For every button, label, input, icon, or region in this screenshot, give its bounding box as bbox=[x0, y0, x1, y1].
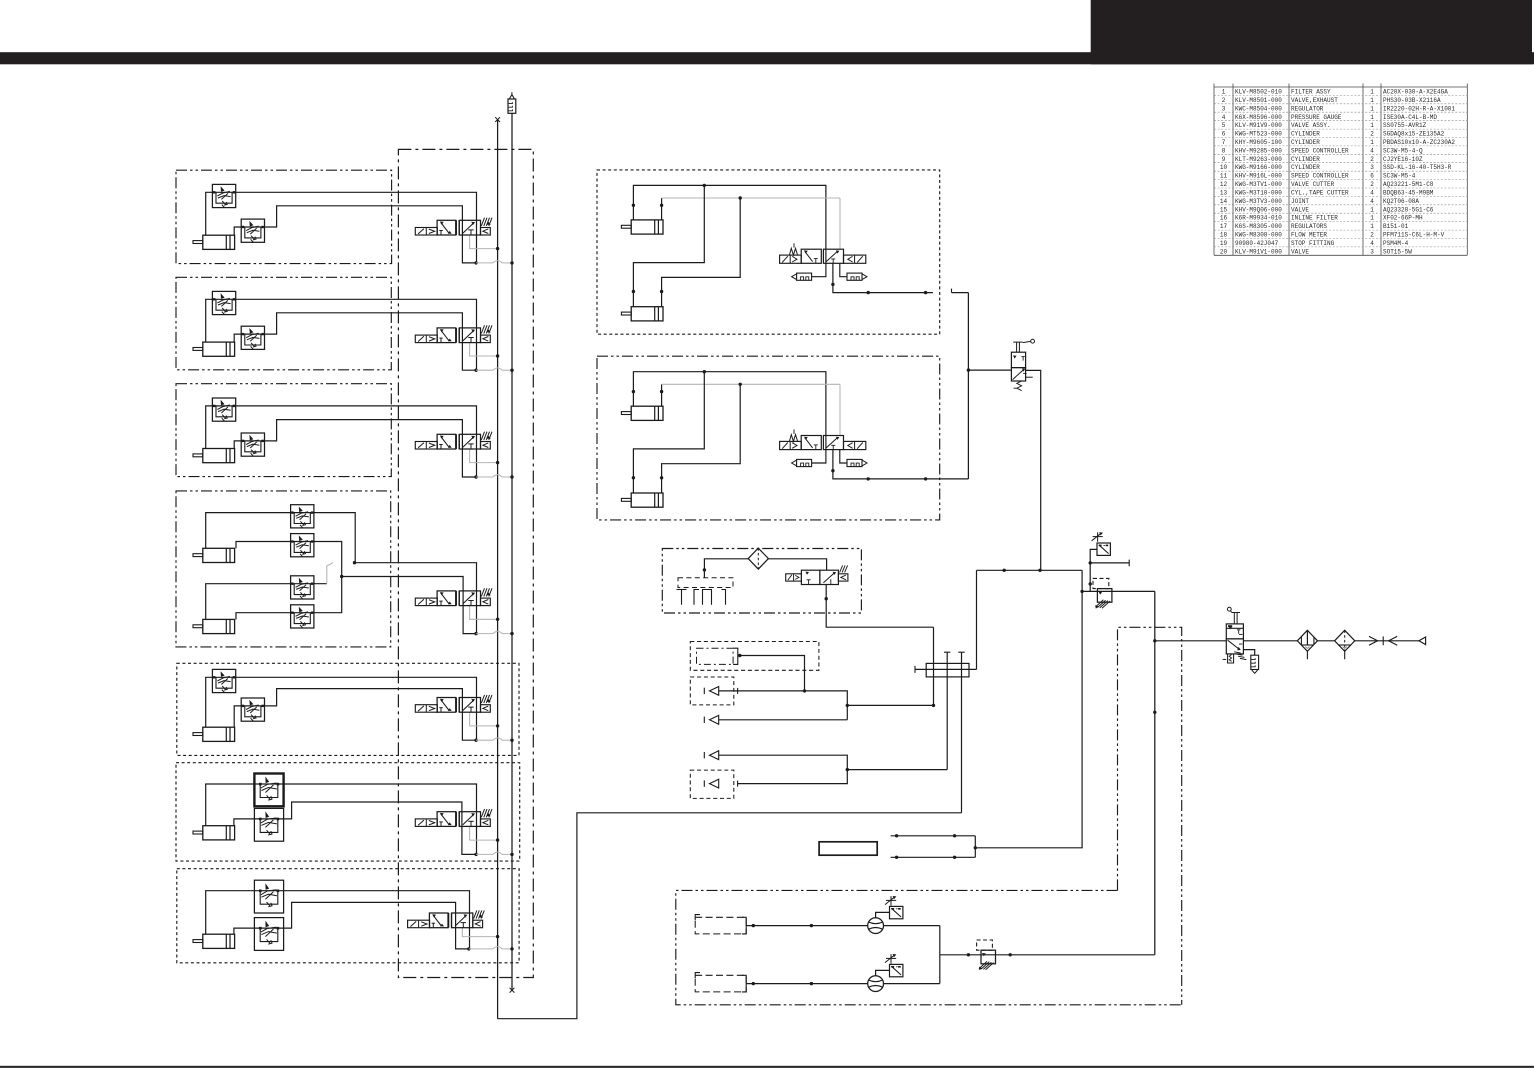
svg-text:BDQB63-45-M9BM: BDQB63-45-M9BM bbox=[1383, 190, 1434, 197]
solenoid valve B1 (5/2) bbox=[415, 228, 437, 236]
wire B6 supply stub (gray) bbox=[470, 826, 498, 840]
wire B4 valve line A bbox=[355, 563, 477, 634]
cylinder B7 bbox=[203, 934, 235, 948]
exhaust bus line R bbox=[511, 113, 513, 990]
block B7 enclosure bbox=[177, 869, 519, 963]
svg-text:KWG-M3TV1-000: KWG-M3TV1-000 bbox=[1235, 181, 1282, 188]
svg-text:13: 13 bbox=[1220, 190, 1228, 197]
wire blow4 to manifold bbox=[847, 769, 947, 771]
svg-text:VALVE ASSY.: VALVE ASSY. bbox=[1291, 122, 1331, 129]
svg-text:6: 6 bbox=[1370, 173, 1374, 180]
flow meter TC1 bbox=[868, 918, 884, 934]
wire V20 output bbox=[826, 585, 933, 628]
svg-text:VALVE: VALVE bbox=[1291, 248, 1309, 255]
junction B5 exhaust bbox=[510, 739, 513, 742]
svg-text:12: 12 bbox=[1220, 181, 1228, 188]
joint manifold block bbox=[926, 663, 969, 677]
svg-text:KHY-M9605-100: KHY-M9605-100 bbox=[1235, 139, 1282, 146]
speed controller B2b bbox=[241, 326, 264, 349]
svg-text:IR2220-02H-R-A-X1001: IR2220-02H-R-A-X1001 bbox=[1383, 105, 1455, 112]
speed controller B5a bbox=[212, 669, 235, 692]
svg-text:KLV-M8501-000: KLV-M8501-000 bbox=[1235, 97, 1282, 104]
wire B2 head-side line bbox=[234, 313, 476, 370]
wire TC1 bbox=[746, 925, 868, 927]
cylinder B5 bbox=[203, 727, 235, 741]
flow meter electric lead TC2 bbox=[890, 954, 892, 964]
svg-text:3: 3 bbox=[1370, 248, 1374, 255]
svg-text:VALVE CUTTER: VALVE CUTTER bbox=[1291, 181, 1335, 188]
flow meter gauge TC2 bbox=[876, 970, 890, 975]
svg-text:FILTER ASSY: FILTER ASSY bbox=[1291, 89, 1331, 96]
cylinder R1B bbox=[631, 307, 663, 321]
junction B2 A bbox=[474, 369, 477, 372]
speed controller B6b bbox=[254, 808, 283, 841]
svg-text:INLINE FILTER: INLINE FILTER bbox=[1291, 215, 1338, 222]
junction B7 supply bbox=[496, 935, 499, 938]
sheet bottom border bbox=[0, 1066, 1534, 1068]
wire blow2 bbox=[719, 691, 848, 720]
manifold riser 3 bbox=[961, 652, 963, 813]
speed controller B3b bbox=[241, 433, 264, 456]
svg-text:K6R-M9934-010: K6R-M9934-010 bbox=[1235, 215, 1282, 222]
wire B3 supply stub (gray) bbox=[470, 449, 498, 463]
exhaust bus end mark bbox=[510, 988, 515, 993]
svg-text:1: 1 bbox=[1370, 122, 1374, 129]
junction B3 exhaust bbox=[510, 475, 513, 478]
junction B4 B bbox=[340, 575, 343, 578]
wire B7 head-side line bbox=[234, 902, 469, 949]
svg-text:PBDAS10x10-A-ZC230A2: PBDAS10x10-A-ZC230A2 bbox=[1383, 139, 1455, 146]
manifold riser 2 bbox=[946, 652, 948, 769]
svg-text:9: 9 bbox=[1222, 156, 1226, 163]
block R2 enclosure bbox=[597, 356, 940, 520]
bus R1/R2 to hand valve bbox=[967, 293, 969, 479]
svg-text:KWC-M8504-000: KWC-M8504-000 bbox=[1235, 105, 1282, 112]
svg-text:1: 1 bbox=[1370, 105, 1374, 112]
flow meter gauge TC1 bbox=[876, 912, 890, 917]
filter unit enclosure bbox=[662, 549, 861, 614]
wire filter left bbox=[704, 559, 748, 578]
svg-text:PHS30-03B-X2116A: PHS30-03B-X2116A bbox=[1383, 97, 1441, 104]
wire B4 cyl2 head-side bbox=[236, 577, 342, 620]
svg-text:REGULATOR: REGULATOR bbox=[1291, 105, 1324, 112]
svg-text:SOT15-5W: SOT15-5W bbox=[1383, 248, 1412, 255]
solenoid valve B5 (5/2) bbox=[415, 705, 437, 713]
svg-text:PSM4M-4: PSM4M-4 bbox=[1383, 240, 1409, 247]
pressure gauge PG (digital) bbox=[1097, 543, 1110, 555]
svg-text:SPEED CONTROLLER: SPEED CONTROLLER bbox=[1291, 147, 1349, 154]
svg-text:KWG-M9166-000: KWG-M9166-000 bbox=[1235, 164, 1282, 171]
junction B6 supply bbox=[496, 838, 499, 841]
svg-text:KQ2T06-08A: KQ2T06-08A bbox=[1383, 198, 1419, 205]
wire R2 line1 bbox=[633, 372, 826, 436]
wire R1 output bbox=[833, 263, 933, 292]
svg-text:STOP FITTING: STOP FITTING bbox=[1291, 240, 1335, 247]
wire R1 line1 bbox=[633, 185, 826, 249]
junction B6 A bbox=[474, 853, 477, 856]
flow meter TC2 bbox=[868, 976, 884, 992]
svg-text:8: 8 bbox=[1222, 147, 1226, 154]
wire blow3 bbox=[719, 719, 848, 721]
regulator R-B (bottom) bbox=[977, 940, 993, 950]
junction B5 A bbox=[474, 739, 477, 742]
wire B4 cyl1 rod-side bbox=[206, 513, 356, 563]
svg-text:FLOW METER: FLOW METER bbox=[1291, 232, 1327, 239]
svg-text:KLT-M9263-000: KLT-M9263-000 bbox=[1235, 156, 1282, 163]
junctions R1 bbox=[703, 184, 706, 187]
cylinder B2 bbox=[203, 342, 235, 356]
valve V20 (3/2) bbox=[801, 570, 820, 584]
junction B3 A bbox=[474, 475, 477, 478]
block B1 enclosure bbox=[176, 170, 392, 263]
speed controller B2a bbox=[212, 291, 235, 314]
svg-text:14: 14 bbox=[1220, 198, 1228, 205]
speed controller B4b bbox=[291, 534, 314, 557]
svg-text:VALVE: VALVE bbox=[1291, 206, 1309, 213]
manifold centerline bbox=[915, 668, 977, 670]
solenoid valve B3 (5/2) bbox=[415, 442, 437, 450]
cylinder TC2 (hidden) bbox=[695, 975, 746, 992]
wire B5 head-side line bbox=[234, 689, 476, 741]
svg-text:REGULATORS: REGULATORS bbox=[1291, 223, 1327, 230]
svg-text:2: 2 bbox=[1370, 232, 1374, 239]
valve V18 silencer bbox=[1243, 650, 1254, 656]
wire filter right bbox=[768, 559, 826, 570]
wire B4 valve line B bbox=[342, 577, 476, 634]
junction B5 supply bbox=[496, 724, 499, 727]
svg-text:KLV-M91V9-000: KLV-M91V9-000 bbox=[1235, 122, 1282, 129]
wire B7 exhaust link (gray) bbox=[469, 948, 493, 950]
svg-text:AC20X-030-A-X2E4GA: AC20X-030-A-X2E4GA bbox=[1383, 89, 1448, 96]
check fitting marks bbox=[1369, 636, 1378, 645]
header rule bar bbox=[0, 52, 1534, 64]
svg-text:1: 1 bbox=[1222, 89, 1226, 96]
svg-text:K6X-M8596-000: K6X-M8596-000 bbox=[1235, 114, 1282, 121]
svg-text:CYLINDER: CYLINDER bbox=[1291, 139, 1320, 146]
inline filter F (diamond) bbox=[748, 548, 768, 569]
wire B7 supply stub (gray) bbox=[462, 928, 497, 937]
svg-text:6: 6 bbox=[1222, 131, 1226, 138]
solenoid valve B6 (5/2) bbox=[415, 819, 437, 827]
svg-text:90980-42J047: 90980-42J047 bbox=[1235, 240, 1279, 247]
flow meter electric lead TC1 bbox=[890, 896, 892, 906]
block B4 enclosure bbox=[176, 491, 391, 647]
svg-text:3: 3 bbox=[1222, 105, 1226, 112]
junction B2 supply bbox=[496, 354, 499, 357]
svg-text:2: 2 bbox=[1370, 181, 1374, 188]
tape cutter mechanism (hidden lines) bbox=[678, 578, 733, 588]
wire B4 exhaust link (gray) bbox=[476, 633, 493, 635]
supply bus plug mark bbox=[495, 117, 500, 122]
wire R2 output bbox=[833, 450, 969, 479]
svg-text:5: 5 bbox=[1222, 122, 1226, 129]
svg-text:ISE30A-C4L-B-MD: ISE30A-C4L-B-MD bbox=[1383, 114, 1437, 121]
wire B4 supply stub (gray) bbox=[470, 606, 498, 620]
solenoid valve B7 (5/2) bbox=[408, 920, 430, 928]
blow group 3 enclosure bbox=[690, 770, 734, 798]
pressure gauge branch bbox=[1090, 549, 1097, 591]
bottom regulator feed bbox=[940, 954, 1155, 956]
svg-text:KHV-M9Q06-000: KHV-M9Q06-000 bbox=[1235, 206, 1282, 213]
wire B1 supply stub (gray) bbox=[470, 235, 498, 249]
wire B1 rod-side line bbox=[206, 192, 477, 263]
wire R2 line2 (gray) bbox=[661, 384, 663, 406]
tape unit enclosure (chimney) bbox=[1118, 627, 1182, 1005]
svg-text:CYLINDER: CYLINDER bbox=[1291, 156, 1320, 163]
valve R1 (5/2 double pilot) bbox=[801, 249, 821, 263]
svg-text:SC3W-M5-4: SC3W-M5-4 bbox=[1383, 173, 1416, 180]
wire TC2 bbox=[746, 983, 868, 985]
test port line bbox=[1090, 562, 1129, 564]
junction B1 supply bbox=[496, 247, 499, 250]
blow group 1 enclosure bbox=[690, 642, 819, 671]
speed controller B6a bbox=[254, 774, 283, 807]
air filter AF1 (diamond) bbox=[1297, 630, 1317, 651]
svg-text:11: 11 bbox=[1220, 173, 1228, 180]
svg-text:16: 16 bbox=[1220, 215, 1228, 222]
header drop right bbox=[975, 570, 1082, 848]
wire B3 head-side line bbox=[234, 420, 476, 477]
pressure gauge electric lead bbox=[1097, 532, 1099, 542]
svg-text:KWG-M3T10-000: KWG-M3T10-000 bbox=[1235, 190, 1282, 197]
valve V18 (3/2 hand) bbox=[1226, 624, 1243, 639]
svg-text:1: 1 bbox=[1370, 89, 1374, 96]
svg-text:AQ23221-5M1-C8: AQ23221-5M1-C8 bbox=[1383, 181, 1434, 188]
svg-text:PRESSURE GAUGE: PRESSURE GAUGE bbox=[1291, 114, 1342, 121]
svg-text:KWG-M8308-000: KWG-M8308-000 bbox=[1235, 232, 1282, 239]
cylinder R2B bbox=[631, 493, 663, 507]
svg-text:1: 1 bbox=[1370, 223, 1374, 230]
svg-text:4: 4 bbox=[1370, 147, 1374, 154]
cylinder B4-1 bbox=[203, 548, 235, 562]
junction B7 exhaust bbox=[510, 947, 513, 950]
cylinder B1 bbox=[203, 235, 235, 249]
svg-text:4: 4 bbox=[1370, 190, 1374, 197]
svg-text:JOINT: JOINT bbox=[1291, 198, 1309, 205]
svg-text:2: 2 bbox=[1370, 156, 1374, 163]
cylinder B3 bbox=[203, 449, 235, 463]
svg-text:CYL.,TAPE CUTTER: CYL.,TAPE CUTTER bbox=[1291, 190, 1349, 197]
svg-text:KWG-MT523-000: KWG-MT523-000 bbox=[1235, 131, 1282, 138]
wire R1 cylB line1 bbox=[633, 185, 704, 306]
main supply vertical bbox=[1154, 591, 1156, 954]
wire B4 cyl1 head-side bbox=[236, 542, 342, 577]
wire B1 head-side line bbox=[234, 206, 476, 263]
supply return path bbox=[498, 813, 962, 1019]
junction B3 supply bbox=[496, 461, 499, 464]
svg-text:2: 2 bbox=[1370, 131, 1374, 138]
valve V18 spring bbox=[1234, 652, 1240, 653]
svg-text:3: 3 bbox=[1370, 164, 1374, 171]
cylinder B6 bbox=[203, 826, 235, 840]
cylinder R1A bbox=[631, 220, 663, 234]
junctions R2 bbox=[703, 370, 706, 373]
exhaust silencer SL1 bbox=[508, 99, 516, 113]
wire B5 rod-side line bbox=[206, 677, 477, 740]
valve V18 detent bbox=[1228, 654, 1234, 663]
wire B6 rod-side line bbox=[206, 784, 477, 854]
svg-text:KHV-M9285-000: KHV-M9285-000 bbox=[1235, 147, 1282, 154]
wire B7 rod-side line bbox=[206, 891, 470, 949]
parts list table bbox=[1214, 84, 1467, 256]
svg-text:10: 10 bbox=[1220, 164, 1228, 171]
tape unit enclosure bbox=[676, 890, 1182, 1004]
blow group 1 cylinder (hidden) bbox=[697, 648, 734, 664]
valve R2 (5/2 double pilot) bbox=[801, 436, 821, 450]
speed controller B1b bbox=[241, 219, 264, 242]
stop fitting stubs bbox=[891, 835, 976, 837]
cylinder TC1 (hidden) bbox=[695, 917, 746, 934]
speed controller B4c bbox=[291, 576, 314, 599]
title block (black) bbox=[1091, 0, 1532, 64]
main air line bbox=[1155, 640, 1227, 642]
air supply symbol bbox=[1419, 637, 1426, 645]
svg-text:SPEED CONTROLLER: SPEED CONTROLLER bbox=[1291, 173, 1349, 180]
manifold riser 1 bbox=[933, 627, 935, 705]
speed controller B5b bbox=[241, 698, 264, 721]
regulator R17 bbox=[1093, 578, 1109, 588]
wire B4 cyl2 rod-side bbox=[206, 584, 327, 620]
svg-text:AQ23328-5G1-C6: AQ23328-5G1-C6 bbox=[1383, 206, 1434, 213]
junction B4 A bbox=[353, 561, 356, 564]
speed controller B4d bbox=[291, 605, 314, 628]
svg-text:KHV-M916L-000: KHV-M916L-000 bbox=[1235, 173, 1282, 180]
svg-text:CYLINDER: CYLINDER bbox=[1291, 164, 1320, 171]
wire blow2 to manifold bbox=[847, 704, 933, 706]
wire B2 rod-side line bbox=[206, 299, 477, 370]
svg-text:VALVE,EXHAUST: VALVE,EXHAUST bbox=[1291, 97, 1338, 104]
svg-text:SSD-KL-16-40-T5H3-R: SSD-KL-16-40-T5H3-R bbox=[1383, 164, 1452, 171]
manifold supply header bbox=[977, 569, 1083, 571]
svg-text:1: 1 bbox=[1370, 139, 1374, 146]
junction B6 exhaust bbox=[510, 853, 513, 856]
svg-text:SS0755-AVR1Z: SS0755-AVR1Z bbox=[1383, 122, 1427, 129]
wire V15 input bbox=[968, 369, 1011, 371]
svg-text:1: 1 bbox=[1370, 114, 1374, 121]
wire blow1 bbox=[738, 656, 805, 691]
wire B6 head-side line bbox=[234, 802, 476, 854]
speed controller B4a bbox=[291, 505, 314, 528]
svg-text:2: 2 bbox=[1222, 97, 1226, 104]
svg-text:B151-01: B151-01 bbox=[1383, 223, 1409, 230]
stop fitting SF4 bbox=[703, 780, 705, 786]
wire R2 cylB line1 bbox=[633, 372, 704, 493]
block B2 enclosure bbox=[176, 277, 391, 370]
cylinder B4-2 bbox=[203, 619, 235, 633]
wire R1 line2 (gray) bbox=[661, 198, 663, 220]
svg-text:7: 7 bbox=[1222, 139, 1226, 146]
svg-text:4: 4 bbox=[1222, 114, 1226, 121]
stop fitting SF1 bbox=[703, 688, 705, 694]
svg-text:KLV-M91V1-000: KLV-M91V1-000 bbox=[1235, 248, 1282, 255]
valve V15 (3-port hand valve) bbox=[1011, 352, 1025, 367]
wire V15 output bbox=[1026, 370, 1041, 570]
wire R2 cylB line2 bbox=[662, 384, 741, 493]
svg-text:18: 18 bbox=[1220, 232, 1228, 239]
wire B6 exhaust link (gray) bbox=[476, 853, 493, 855]
svg-text:CJ2YE16-10Z: CJ2YE16-10Z bbox=[1383, 156, 1423, 163]
svg-text:4: 4 bbox=[1370, 240, 1374, 247]
valve V15 spring bbox=[1017, 381, 1022, 391]
svg-text:KWG-M3TV3-000: KWG-M3TV3-000 bbox=[1235, 198, 1282, 205]
junction B2 exhaust bbox=[510, 369, 513, 372]
wire B3 exhaust link (gray) bbox=[476, 476, 493, 478]
svg-text:K6S-M8305-000: K6S-M8305-000 bbox=[1235, 223, 1282, 230]
svg-text:1: 1 bbox=[1370, 215, 1374, 222]
svg-text:1: 1 bbox=[1370, 206, 1374, 213]
speed controller B3a bbox=[212, 398, 235, 421]
speed controller B1a bbox=[212, 184, 235, 207]
wire blow4 bbox=[719, 755, 848, 783]
wire B5 exhaust link (gray) bbox=[476, 739, 493, 741]
svg-text:CYLINDER: CYLINDER bbox=[1291, 131, 1320, 138]
wire B5 supply stub (gray) bbox=[470, 712, 498, 726]
svg-text:PFM711S-C6L-H-M-V: PFM711S-C6L-H-M-V bbox=[1383, 232, 1445, 239]
svg-text:1: 1 bbox=[1370, 97, 1374, 104]
stop fitting SF2 bbox=[703, 717, 705, 723]
stop fitting SF3 bbox=[703, 752, 705, 758]
wire B3 rod-side line bbox=[206, 406, 477, 477]
block R1 enclosure bbox=[597, 170, 940, 334]
air filter AF2 (diamond) bbox=[1335, 630, 1355, 651]
speed controller B7b bbox=[254, 918, 283, 951]
solenoid valve B2 (5/2) bbox=[415, 335, 437, 343]
block B3 enclosure bbox=[176, 384, 391, 477]
svg-text:15: 15 bbox=[1220, 206, 1228, 213]
junction B1 A bbox=[474, 261, 477, 264]
svg-text:4: 4 bbox=[1370, 198, 1374, 205]
regulator feed line bbox=[1082, 590, 1155, 592]
block B6 enclosure bbox=[176, 763, 520, 861]
svg-text:XF02-66P-MH: XF02-66P-MH bbox=[1383, 215, 1423, 222]
svg-text:19: 19 bbox=[1220, 240, 1228, 247]
junction B1 exhaust bbox=[510, 261, 513, 264]
blow group 2 enclosure bbox=[690, 677, 734, 705]
svg-text:17: 17 bbox=[1220, 223, 1228, 230]
wire B2 supply stub (gray) bbox=[470, 343, 498, 356]
solenoid valve B4 (5/2) bbox=[415, 598, 437, 606]
junction B7 A bbox=[467, 947, 470, 950]
wire TC1 out bbox=[884, 925, 940, 927]
svg-text:20: 20 bbox=[1220, 248, 1228, 255]
wire B1 exhaust link (gray) bbox=[476, 262, 493, 264]
cylinder R2A bbox=[631, 406, 663, 420]
valve manifold enclosure bbox=[398, 149, 533, 977]
wire R1 cylB line2 bbox=[662, 198, 741, 307]
svg-text:SC3W-M5-4-Q: SC3W-M5-4-Q bbox=[1383, 147, 1423, 154]
block B5 enclosure bbox=[177, 663, 519, 755]
manifold to supply riser bbox=[976, 570, 978, 669]
wire TC2 out bbox=[884, 983, 940, 985]
speed controller B7a bbox=[254, 880, 283, 913]
label frame bbox=[819, 842, 877, 855]
svg-text:SGDAQ8x15-ZE135A2: SGDAQ8x15-ZE135A2 bbox=[1383, 131, 1445, 138]
svg-text:KLV-M8502-010: KLV-M8502-010 bbox=[1235, 89, 1282, 96]
supply bus line P bbox=[497, 120, 499, 1019]
wire B2 exhaust link (gray) bbox=[476, 369, 493, 371]
